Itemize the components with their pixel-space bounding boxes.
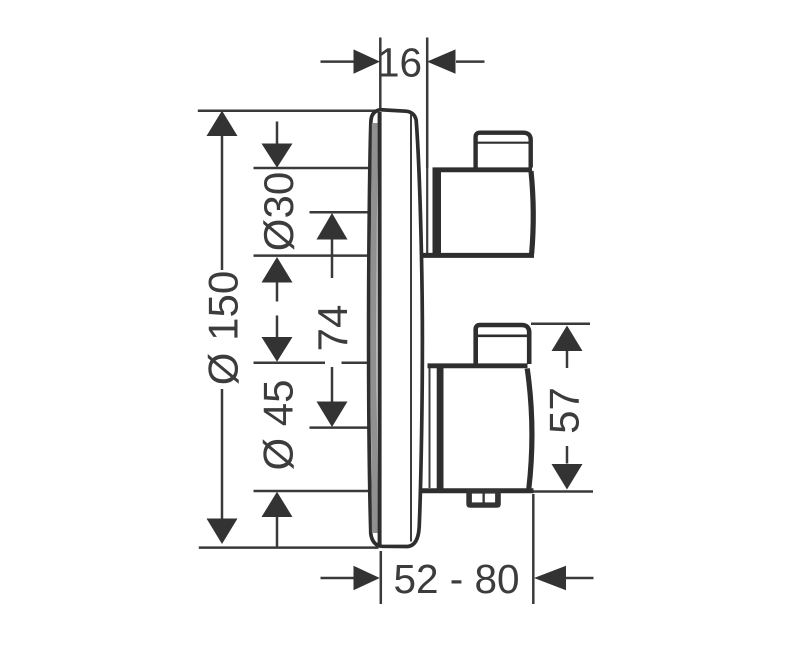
svg-text:74: 74 bbox=[309, 305, 356, 352]
svg-text:Ø30: Ø30 bbox=[255, 172, 302, 251]
svg-text:Ø 150: Ø 150 bbox=[200, 271, 247, 385]
svg-text:57: 57 bbox=[541, 387, 588, 434]
svg-text:16: 16 bbox=[377, 40, 422, 86]
svg-text:52 - 80: 52 - 80 bbox=[393, 556, 519, 602]
svg-text:Ø 45: Ø 45 bbox=[255, 379, 302, 470]
